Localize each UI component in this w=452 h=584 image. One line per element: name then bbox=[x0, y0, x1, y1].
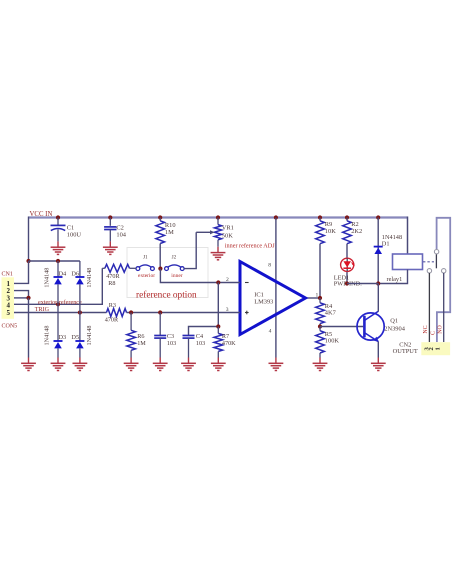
wire J2 to VR1 wiper bbox=[184, 232, 196, 268]
connector CN2 bbox=[421, 342, 450, 355]
resistor R7 470K bbox=[214, 333, 223, 351]
wire TRIG from CN1 pin5 bbox=[14, 312, 107, 314]
svg-text:NO: NO bbox=[438, 325, 444, 334]
wire R9 to output node bbox=[319, 244, 321, 298]
wire switch common loop to CN2 pin2 bbox=[437, 218, 451, 342]
capacitor C4 103 bbox=[189, 327, 219, 336]
wire C2 top lead bbox=[109, 218, 111, 226]
ground below D3 bbox=[51, 362, 66, 364]
wire CN1 pin2 bbox=[14, 291, 29, 298]
op-amp IC1 LM393 bbox=[240, 262, 306, 335]
resistor R3 470R bbox=[107, 309, 127, 317]
ground below R7 bbox=[211, 362, 226, 364]
junction LED1 to node bbox=[345, 281, 349, 285]
wire pin3 node to ground bbox=[28, 298, 30, 358]
svg-text:4: 4 bbox=[269, 329, 272, 335]
wire D4 anode to reference line bbox=[57, 284, 59, 304]
svg-text:exterior: exterior bbox=[138, 273, 155, 279]
relay actuation dashed link bbox=[423, 261, 434, 263]
junction TRIG-C3 bbox=[158, 310, 162, 314]
svg-text:2: 2 bbox=[226, 277, 229, 283]
wire emitter to ground bbox=[377, 342, 379, 358]
svg-text:D1: D1 bbox=[382, 241, 390, 248]
svg-text:TRIG: TRIG bbox=[35, 307, 50, 313]
junction rail-R9 bbox=[318, 215, 322, 219]
diode D6 bbox=[75, 276, 84, 278]
connector CN1 CON5 bbox=[2, 277, 15, 319]
svg-text:C1: C1 bbox=[67, 224, 74, 231]
diode D5 bbox=[75, 340, 84, 342]
svg-text:J1: J1 bbox=[143, 255, 148, 261]
wire D1 cathode lead bbox=[377, 218, 379, 284]
junction jumper node bbox=[158, 267, 162, 271]
ground below C4 bbox=[181, 362, 196, 364]
junction base node bbox=[318, 324, 322, 328]
resistor R4 bbox=[316, 303, 325, 324]
junction rail-VR1 bbox=[216, 215, 220, 219]
svg-text:R3: R3 bbox=[109, 302, 116, 309]
svg-text:relay1: relay1 bbox=[387, 276, 403, 283]
resistor R6 1M bbox=[130, 313, 132, 331]
svg-text:10K: 10K bbox=[325, 228, 336, 235]
svg-text:R6: R6 bbox=[137, 333, 144, 340]
svg-text:104: 104 bbox=[116, 231, 126, 238]
svg-text:D4: D4 bbox=[59, 271, 68, 278]
net rail2 VCC clamp rail bbox=[29, 260, 80, 262]
junction rail2-D4 bbox=[56, 259, 60, 263]
junction R7 node bbox=[216, 324, 220, 328]
LED LED1 bbox=[341, 258, 354, 271]
svg-text:Q1: Q1 bbox=[390, 317, 398, 324]
ground below R6 bbox=[124, 362, 139, 364]
wire C1 top lead bbox=[57, 218, 59, 226]
svg-text:exterior reference: exterior reference bbox=[38, 299, 82, 306]
svg-text:R9: R9 bbox=[325, 221, 332, 228]
svg-text:J2: J2 bbox=[172, 255, 177, 261]
wire C2 bottom lead bbox=[109, 230, 111, 242]
ghost box reference option group outline bbox=[127, 248, 208, 298]
wire D3 cathode from reference line bbox=[57, 304, 59, 341]
net VCC top power rail bbox=[29, 216, 408, 218]
svg-text:R8: R8 bbox=[108, 280, 115, 287]
wire R10 to jumper junction bbox=[159, 244, 161, 269]
junction pin2 / R7 branch bbox=[216, 280, 220, 284]
ground below D5 bbox=[73, 362, 88, 364]
capacitor C1 polarized bbox=[51, 224, 66, 226]
wire exterior reference riser bbox=[14, 268, 102, 304]
wire CN1 pin3 bbox=[14, 297, 29, 299]
wire CN1 pin1 to rail2 bbox=[14, 261, 29, 283]
ground below Q1 bbox=[371, 362, 386, 364]
resistor R10 bbox=[159, 218, 161, 221]
svg-text:CON5: CON5 bbox=[2, 323, 18, 329]
wire relay coil bottom to node bbox=[378, 270, 407, 284]
wire VCC left drop to rail2 bbox=[28, 217, 30, 262]
junction TRIG-D6 bbox=[78, 310, 82, 314]
diode D4 bbox=[54, 276, 63, 278]
svg-text:R7: R7 bbox=[222, 333, 229, 340]
svg-text:100U: 100U bbox=[67, 231, 82, 238]
svg-text:103: 103 bbox=[196, 340, 205, 347]
svg-text:NC: NC bbox=[423, 325, 429, 333]
wire R3 to opamp pin3 bbox=[127, 312, 241, 314]
svg-text:470K: 470K bbox=[222, 340, 236, 347]
resistor R2 bbox=[346, 218, 348, 221]
wire D4 cathode bbox=[57, 261, 59, 277]
svg-text:50K: 50K bbox=[222, 233, 233, 240]
wire C1 bottom lead bbox=[57, 230, 59, 242]
junction pins 2-3 bbox=[26, 296, 30, 300]
svg-text:1N4148: 1N4148 bbox=[44, 326, 51, 346]
wire D6 anode to TRIG bbox=[79, 284, 81, 312]
wire D6 drop bbox=[79, 261, 81, 277]
svg-text:D5: D5 bbox=[71, 334, 79, 341]
junction rail-D1 bbox=[376, 215, 380, 219]
wire R2 to LED1 bbox=[346, 244, 348, 284]
svg-text:C2: C2 bbox=[116, 224, 123, 231]
wire D5 anode to ground bbox=[79, 348, 81, 357]
wire rail to relay coil bbox=[407, 217, 409, 255]
wire NC to CN2 pin3 bbox=[428, 273, 430, 342]
wire D3 anode to ground bbox=[57, 348, 59, 357]
svg-text:inner reference ADJ: inner reference ADJ bbox=[225, 243, 275, 250]
wire opamp pin8/pin4 vertical bbox=[275, 218, 277, 358]
svg-text:5: 5 bbox=[6, 309, 10, 317]
wire opamp output bbox=[306, 297, 321, 299]
svg-text:C3: C3 bbox=[167, 333, 174, 340]
junction rail2 left bbox=[26, 259, 30, 263]
svg-text:inner: inner bbox=[171, 273, 182, 279]
wire node to LED branch bbox=[347, 283, 378, 285]
junction relay/D1/collector node bbox=[376, 281, 380, 285]
svg-text:VCC IN: VCC IN bbox=[30, 211, 53, 218]
ground below opamp pin4 bbox=[269, 362, 284, 364]
diode D1 1N4148 bbox=[374, 246, 383, 248]
svg-text:C: C bbox=[430, 331, 436, 335]
svg-text:1M: 1M bbox=[137, 340, 146, 347]
resistor R8 470R bbox=[105, 264, 130, 272]
svg-text:100K: 100K bbox=[325, 338, 340, 345]
wire collector bbox=[377, 284, 379, 312]
ground below VR1 bbox=[211, 252, 226, 254]
junction D4 on reference line bbox=[56, 302, 60, 306]
wire VR1 bottom lead bbox=[217, 240, 219, 247]
relay coil relay1 bbox=[393, 254, 423, 270]
resistor R5 bbox=[316, 331, 325, 353]
svg-text:IC1: IC1 bbox=[254, 292, 264, 299]
diode D3 bbox=[54, 340, 63, 342]
junction rail-C2 bbox=[108, 215, 112, 219]
jumper J2 bbox=[165, 267, 169, 271]
capacitor C3 103 bbox=[159, 313, 161, 336]
svg-text:103: 103 bbox=[167, 340, 176, 347]
svg-text:C4: C4 bbox=[196, 333, 203, 340]
svg-text:VR1: VR1 bbox=[222, 225, 234, 232]
svg-text:1N4148: 1N4148 bbox=[44, 268, 51, 288]
svg-text:LM393: LM393 bbox=[254, 299, 273, 306]
switch common contact bbox=[434, 250, 438, 254]
wire base bbox=[320, 326, 363, 328]
svg-text:OUTPUT: OUTPUT bbox=[393, 348, 418, 355]
transistor Q1 2N3904 bbox=[357, 313, 384, 340]
junction rail-R2 bbox=[345, 215, 349, 219]
ground below CN1 bbox=[21, 362, 36, 364]
ground below C1 bbox=[51, 246, 66, 248]
svg-text:reference option: reference option bbox=[136, 289, 197, 300]
junction rail-C1 bbox=[56, 215, 60, 219]
junction rail-opamp pin8 bbox=[274, 215, 278, 219]
svg-text:D3: D3 bbox=[59, 334, 67, 341]
switch NO contact bbox=[442, 269, 446, 273]
switch blade bbox=[435, 254, 437, 269]
resistor R9 bbox=[319, 218, 321, 221]
capacitor C2 bbox=[104, 226, 116, 228]
svg-text:1N4148: 1N4148 bbox=[86, 268, 93, 288]
ground below R5 bbox=[313, 362, 328, 364]
svg-text:470R: 470R bbox=[105, 317, 119, 324]
wire D5 cathode from TRIG bbox=[79, 313, 81, 342]
wire pin2 node down bbox=[217, 283, 219, 327]
svg-text:CN1: CN1 bbox=[2, 272, 13, 278]
potentiometer VR1 50K bbox=[217, 218, 219, 225]
wire NO to CN2 pin1 bbox=[443, 273, 445, 342]
jumper J1 bbox=[136, 267, 140, 271]
svg-text:3: 3 bbox=[226, 307, 229, 313]
svg-text:2K2: 2K2 bbox=[351, 228, 362, 235]
junction rail-R10 bbox=[158, 215, 162, 219]
wire jumper node down to pin2 line bbox=[160, 269, 240, 283]
svg-text:1N4148: 1N4148 bbox=[86, 326, 93, 346]
switch NC contact bbox=[427, 269, 431, 273]
svg-text:1M: 1M bbox=[165, 229, 174, 236]
junction TRIG-R6 bbox=[129, 310, 133, 314]
svg-text:2N3904: 2N3904 bbox=[384, 325, 405, 332]
ground below C2 bbox=[103, 246, 118, 248]
svg-text:8: 8 bbox=[268, 262, 271, 268]
VR1 wiper arrow bbox=[196, 231, 211, 233]
svg-text:4K7: 4K7 bbox=[325, 309, 337, 316]
junction output node bbox=[318, 296, 322, 300]
svg-text:R2: R2 bbox=[351, 221, 358, 228]
svg-text:D6: D6 bbox=[71, 271, 79, 278]
svg-text:1: 1 bbox=[435, 347, 442, 350]
ground below C3 bbox=[153, 362, 168, 364]
